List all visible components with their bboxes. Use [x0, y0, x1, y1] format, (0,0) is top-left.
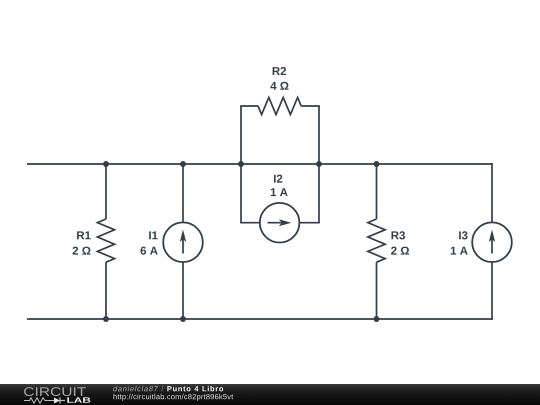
wire R2 right lead	[301, 105, 320, 107]
wire R2 left lead	[240, 105, 258, 107]
wire top bus	[27, 163, 493, 165]
current source I1	[163, 222, 203, 262]
label R2 designator	[273, 67, 286, 75]
logo wordmark LAB	[67, 397, 90, 402]
label R1 designator	[77, 231, 91, 239]
label R3 designator	[391, 231, 405, 239]
wire I2 right stub	[299, 222, 319, 224]
wire I2 right vertical	[318, 164, 320, 223]
label I2 designator	[274, 175, 282, 183]
footer credit author name	[113, 386, 158, 392]
label R1 value 2 ohm	[73, 247, 91, 255]
node bottom-R3	[374, 316, 380, 322]
node top-R2-left	[238, 161, 244, 167]
wire I2 left vertical	[240, 164, 242, 223]
label I3 designator	[459, 231, 467, 239]
label I3 value 1 A	[451, 247, 468, 255]
node top-R3	[374, 161, 380, 167]
wire R1 branch top lead	[105, 164, 107, 219]
footer credit url	[114, 394, 234, 401]
wire I1 branch top lead	[182, 164, 184, 222]
footer credit schematic title	[167, 386, 223, 392]
node top-R2-right	[316, 161, 322, 167]
logo diode symbol	[54, 398, 65, 404]
wire I3 branch top lead	[491, 163, 493, 222]
wire I2 left stub	[240, 222, 260, 224]
label R2 value 4 ohm	[270, 82, 288, 90]
wire R3 branch top lead	[376, 164, 378, 219]
node top-I1	[180, 161, 186, 167]
current source I2	[260, 203, 300, 243]
wire R2 loop left vertical	[240, 106, 242, 164]
logo wordmark CIRCUIT	[24, 387, 86, 396]
wire bottom bus	[27, 318, 493, 320]
wire I1 branch bottom lead	[182, 262, 184, 319]
resistor R3	[368, 219, 385, 262]
wire R3 branch bottom lead	[376, 262, 378, 319]
label I2 value 1 A	[271, 188, 288, 196]
label R3 value 2 ohm	[391, 247, 409, 255]
current source I3	[472, 222, 512, 262]
wire R2 loop right vertical	[318, 106, 320, 164]
label I1 designator	[149, 231, 158, 239]
wire R1 branch bottom lead	[105, 262, 107, 319]
node bottom-R1	[103, 316, 109, 322]
footer watermark bar	[0, 384, 540, 405]
logo resistor squiggle	[24, 398, 54, 403]
wire I3 branch bottom lead	[491, 262, 493, 320]
node top-R1	[103, 161, 109, 167]
resistor R2	[258, 97, 301, 114]
footer credit separator slash	[161, 386, 163, 392]
label I1 value 6 A	[141, 247, 158, 255]
resistor R1	[97, 219, 114, 262]
node bottom-I1	[180, 316, 186, 322]
